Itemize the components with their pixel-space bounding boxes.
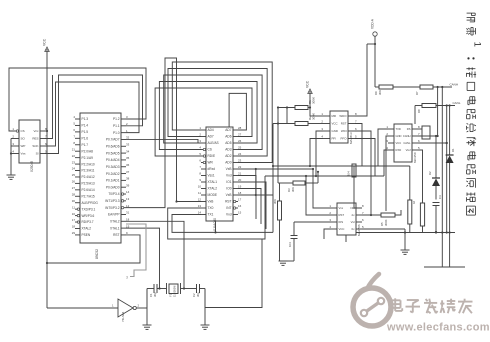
svg-text:R8: R8 (417, 109, 421, 113)
svg-text:RXD: RXD (396, 148, 402, 152)
svg-text:P0.4/AD4: P0.4/AD4 (106, 158, 120, 162)
wire U5 RST right (355, 124, 362, 167)
wire x278 down (278, 108, 280, 184)
ground G4 (279, 261, 295, 265)
svg-text:P1.5: P1.5 (82, 130, 89, 134)
wire R8 left (415, 106, 422, 125)
wire XTAL2 drop (126, 221, 184, 288)
svg-text:P2.2/A10: P2.2/A10 (82, 162, 95, 166)
svg-text:Vss: Vss (21, 152, 27, 156)
svg-text:30K: 30K (378, 90, 382, 95)
svg-text:CANL: CANL (403, 141, 411, 145)
wire D1 down (449, 163, 451, 267)
ground G2 (143, 289, 152, 330)
svg-text:P0.3/AD3: P0.3/AD3 (106, 165, 120, 169)
svg-text:SO: SO (21, 137, 26, 141)
power VCC (center) (306, 80, 313, 116)
bus loop U2 address lines (woven fan) (155, 62, 272, 163)
svg-text:AD4: AD4 (208, 128, 214, 132)
ground G3 (201, 289, 210, 330)
svg-text:14: 14 (126, 190, 130, 194)
wire CANL row (436, 101, 461, 107)
wire x273 vertical (272, 124, 274, 233)
resistor R8 (417, 104, 436, 114)
wire EEPROM SI loop (45, 75, 143, 154)
svg-text:CS: CS (208, 148, 212, 152)
svg-text:P2.0/A8: P2.0/A8 (82, 149, 94, 153)
svg-text:RST: RST (113, 233, 119, 237)
svg-text:17: 17 (238, 198, 242, 202)
svg-text:P0.1/AD1: P0.1/AD1 (106, 179, 120, 183)
svg-text:WDO: WDO (339, 114, 347, 118)
wire MCU-EA to U2 MODE (126, 58, 201, 208)
svg-text:XTAL2: XTAL2 (110, 220, 120, 224)
svg-text:WDI: WDI (341, 129, 347, 133)
wire U7 pin2 (305, 175, 331, 215)
svg-text:CANL: CANL (453, 101, 461, 105)
svg-text:AD7: AD7 (208, 135, 214, 139)
wire EEPROM ground leads (10, 139, 14, 176)
wire U7 pin8 (354, 166, 362, 208)
svg-text:MODE: MODE (208, 193, 218, 197)
svg-text:13: 13 (126, 197, 130, 201)
svg-text:P0.6/AD6: P0.6/AD6 (106, 144, 120, 148)
svg-text:VCC: VCC (396, 141, 402, 145)
svg-text:P2.1/A9: P2.1/A9 (82, 156, 94, 160)
svg-text:INT1/P3.3: INT1/P3.3 (105, 199, 120, 203)
svg-text:GND: GND (332, 129, 338, 133)
wire U7 pin3 to C3 (294, 221, 331, 223)
resistor R7 (415, 85, 433, 95)
svg-text:P1.3: P1.3 (82, 117, 89, 121)
wire vertical x255 (255, 169, 257, 196)
resistor R6 62 (408, 200, 416, 224)
svg-text:17: 17 (72, 218, 76, 222)
wire x287 down (286, 108, 288, 124)
svg-text:PFO: PFO (341, 137, 348, 141)
svg-text:CS: CS (21, 129, 25, 133)
svg-text:30K: 30K (273, 199, 277, 204)
svg-text:300K: 300K (312, 97, 316, 104)
svg-text:P1.0: P1.0 (113, 131, 120, 135)
wire U5 WDI right (355, 131, 372, 216)
svg-text:R7: R7 (415, 91, 419, 95)
svg-text:P1.4: P1.4 (82, 124, 89, 128)
svg-text:RES: RES (32, 137, 38, 141)
capacitor C4 (433, 195, 443, 206)
svg-text:VCC: VCC (339, 227, 345, 231)
svg-text:P2.4/A12: P2.4/A12 (82, 175, 95, 179)
svg-text:VxB: VxB (226, 167, 232, 171)
transceiver U6 82C250 (386, 124, 420, 163)
svg-text:P0.2/AD2: P0.2/AD2 (106, 172, 120, 176)
wire U6 Vref (418, 150, 423, 203)
wire R3 leads (280, 171, 320, 183)
wire U2 row10 rail (238, 194, 273, 196)
svg-text:28: 28 (72, 192, 76, 196)
svg-text:ALE/PROG: ALE/PROG (82, 201, 99, 205)
svg-text:89C52: 89C52 (95, 249, 99, 259)
svg-text:RST: RST (339, 213, 345, 217)
EEPROM U3 X25045 (12, 120, 47, 172)
svg-text:TX0: TX0 (208, 206, 214, 210)
svg-text:RST: RST (341, 122, 347, 126)
svg-text:XTAL2: XTAL2 (82, 227, 92, 231)
svg-text:104: 104 (347, 171, 351, 176)
svg-text:VxB: VxB (208, 200, 214, 204)
svg-text:22: 22 (72, 154, 76, 158)
wire U2 bottom stub (214, 221, 216, 233)
svg-text:MR: MR (332, 114, 337, 118)
wire R5 right (395, 210, 401, 215)
svg-text:CANH: CANH (450, 83, 459, 87)
svg-text:X25045: X25045 (30, 161, 34, 172)
svg-text:74LS04: 74LS04 (121, 311, 125, 322)
svg-text:WR: WR (208, 161, 214, 165)
capacitor C5 104 (347, 164, 357, 177)
svg-text:CANH: CANH (403, 134, 411, 138)
svg-text:1: 1 (472, 42, 483, 47)
svg-text:INT: INT (226, 206, 231, 210)
wire bottom rail y232 (356, 231, 455, 233)
resistor R5 (380, 213, 395, 226)
wire R1 left (277, 106, 311, 108)
wire U2 row8 bend (238, 182, 266, 229)
svg-text:SCK: SCK (32, 144, 38, 148)
svg-text:C4: C4 (438, 195, 442, 199)
wire U7 bottom stub (345, 235, 347, 242)
MCU U1 89C52 (72, 113, 130, 259)
svg-text:30p: 30p (153, 292, 157, 297)
svg-text:P1.1: P1.1 (113, 124, 120, 128)
svg-text:82C250: 82C250 (413, 152, 417, 163)
diode D1 (446, 148, 455, 163)
wire U7 pin4 (324, 229, 331, 239)
svg-text:AD5: AD5 (225, 141, 231, 145)
capacitor C1 30pF (149, 284, 157, 297)
wire crystal rail (147, 287, 205, 289)
wire U5 pin1 (310, 115, 323, 117)
wire D2 to C4 (435, 186, 437, 200)
svg-text:3: 3 (126, 276, 128, 280)
wire XTAL1 drop (126, 228, 160, 288)
ground G5 (362, 229, 410, 254)
wire U2 TX1 route (172, 215, 273, 233)
svg-text:T0/P3.4: T0/P3.4 (108, 192, 119, 196)
svg-text:104: 104 (288, 242, 292, 247)
svg-text:D1: D1 (451, 148, 455, 152)
svg-text:Vxd: Vxd (226, 213, 232, 217)
wire U6 RS (418, 128, 422, 130)
power VCC (left) (43, 38, 50, 308)
svg-text:31: 31 (126, 211, 130, 215)
ground G1 (EEPROM) (7, 175, 16, 179)
svg-text:26: 26 (72, 180, 76, 184)
svg-text:Vxd: Vxd (226, 174, 232, 178)
svg-text:RD/P3.7: RD/P3.7 (82, 220, 94, 224)
svg-text:XTAL2: XTAL2 (208, 187, 218, 191)
svg-text:WP: WP (21, 144, 26, 148)
resistor R2 300K (295, 113, 316, 126)
wire rail y166 (273, 165, 410, 167)
wire inverter output (136, 289, 147, 309)
svg-text:TXD/P3.1: TXD/P3.1 (82, 207, 96, 211)
svg-text:RST: RST (225, 200, 231, 204)
svg-text:TX1: TX1 (208, 213, 214, 217)
title (vertical) 附录1：接口电路总体电路原理图 (466, 13, 482, 215)
svg-text:IO0: IO0 (226, 187, 231, 191)
svg-text:ALE/AS: ALE/AS (208, 141, 219, 145)
svg-text:300K: 300K (312, 113, 316, 120)
wire U5 GND down (315, 131, 323, 177)
svg-text:36: 36 (126, 163, 130, 167)
watchdog U7 MAX706 (329, 203, 364, 236)
svg-text:30K: 30K (291, 187, 295, 192)
wire U6 CANL out (418, 142, 448, 144)
wire RST net (46, 235, 140, 264)
svg-text:39: 39 (126, 183, 130, 187)
resistor R1 300K (295, 97, 316, 110)
capacitor C3 104 (288, 236, 298, 248)
svg-text:Vsl: Vsl (351, 220, 355, 224)
svg-text:RD/E: RD/E (208, 154, 216, 158)
svg-text:VDD-A: VDD-A (371, 18, 375, 29)
svg-text:EA/VPP: EA/VPP (108, 213, 120, 217)
wire U6 TXD (378, 129, 388, 166)
svg-text:300K: 300K (384, 219, 388, 226)
capacitor C2 30pF (192, 284, 200, 297)
svg-text:11: 11 (72, 205, 75, 209)
wire R9-R7 (393, 86, 420, 88)
wire MCU AD7 to U2 (126, 139, 201, 143)
svg-text:21: 21 (72, 147, 76, 151)
inverter U4 74LS04 (112, 299, 140, 322)
wire vert x449.6 (449, 106, 451, 156)
wire U2 row7 bend (238, 176, 256, 220)
wire EEPROM CS loop (9, 68, 146, 131)
svg-text:34: 34 (126, 149, 130, 153)
svg-text:MAX813: MAX813 (349, 132, 353, 144)
svg-text:27: 27 (72, 186, 76, 190)
svg-text:VxB: VxB (226, 193, 232, 197)
wire R4 down (279, 220, 281, 261)
svg-text:Vxx: Vxx (339, 206, 344, 210)
wire U6 GND down (386, 136, 388, 211)
resistor R10 (420, 203, 424, 233)
wire U2 innermost loop (229, 93, 246, 130)
svg-text:PSEN: PSEN (82, 233, 91, 237)
svg-text:INT0/P3.2: INT0/P3.2 (105, 206, 120, 210)
wire vert x437.6 (437, 87, 439, 136)
wire C4 down (435, 206, 437, 234)
svg-text:25: 25 (72, 173, 76, 177)
svg-text:38: 38 (126, 177, 130, 181)
svg-text:TXD: TXD (396, 127, 401, 131)
wire VDD-A branch left (367, 43, 375, 45)
diode D2 (428, 171, 440, 186)
svg-text:GND: GND (396, 134, 402, 138)
wire xtal to right (205, 239, 262, 308)
svg-text:P0.5/AD5: P0.5/AD5 (106, 151, 120, 155)
svg-text:Vss1: Vss1 (208, 174, 215, 178)
wire rail y176 (265, 175, 384, 177)
svg-text:16: 16 (238, 204, 242, 208)
svg-text:10: 10 (198, 185, 202, 189)
wire inverter input (47, 307, 118, 309)
svg-text:15: 15 (238, 211, 242, 215)
svg-text:AD7: AD7 (225, 128, 231, 132)
wire R2 left (273, 122, 295, 124)
wire U7 right pin2 resistor (362, 214, 381, 216)
svg-text:P1.6: P1.6 (82, 137, 89, 141)
svg-text:11: 11 (198, 191, 201, 195)
svg-text:30: 30 (72, 199, 76, 203)
wire VDD-A down to R9 (375, 44, 379, 87)
svg-text:Vref: Vref (406, 148, 411, 152)
svg-text:P1.7: P1.7 (82, 143, 89, 147)
wire EEPROM SCK loop (45, 82, 139, 146)
svg-text:PFI: PFI (332, 137, 337, 141)
svg-text:37: 37 (126, 170, 130, 174)
supervisor U5 MAX813L (321, 111, 357, 144)
wire vert x442.3 (441, 87, 443, 267)
svg-text:18: 18 (72, 225, 76, 229)
wire vert x446.7 (446, 106, 448, 233)
resistor R4 (vertical) (273, 199, 282, 220)
svg-text:P1.2: P1.2 (113, 117, 120, 121)
svg-text:AD0: AD0 (225, 161, 231, 165)
svg-text:Vcc: Vcc (33, 129, 39, 133)
wire U5 PFO right (355, 139, 375, 177)
wire R6 top (409, 166, 411, 200)
wire R4 top (279, 183, 281, 201)
wire U5 PFI down (309, 139, 323, 168)
svg-text:23: 23 (72, 160, 76, 164)
svg-text:AD3: AD3 (225, 148, 231, 152)
svg-text:35: 35 (126, 156, 130, 160)
svg-text:MAX706: MAX706 (357, 224, 361, 236)
svg-text:30p: 30p (196, 292, 200, 297)
svg-text:P2.7/A15: P2.7/A15 (82, 194, 95, 198)
svg-text:XTAL1: XTAL1 (110, 226, 120, 230)
svg-text:RS: RS (407, 127, 411, 131)
svg-text:P2.5/A13: P2.5/A13 (82, 182, 95, 186)
crystal Y1 (167, 283, 181, 297)
svg-text:SI: SI (36, 152, 39, 156)
svg-text:16: 16 (72, 212, 76, 216)
wire EA grey (126, 224, 146, 280)
wire U5 WDO right (355, 44, 367, 116)
wire R2 right (308, 123, 323, 125)
svg-text:XTAL1: XTAL1 (208, 180, 218, 184)
svg-text:VCC: VCC (332, 122, 338, 126)
svg-text:AD6: AD6 (225, 135, 231, 139)
svg-text:WR/P3.6: WR/P3.6 (82, 214, 95, 218)
wire CANH row (433, 83, 458, 89)
svg-text:Y1: Y1 (169, 293, 173, 297)
svg-text:24: 24 (72, 167, 76, 171)
svg-text:AD2: AD2 (225, 154, 231, 158)
wire rail y267 (424, 266, 465, 268)
svg-text:IO1: IO1 (226, 180, 231, 184)
svg-text:dRxd: dRxd (208, 167, 216, 171)
wire EEPROM RES (45, 75, 53, 139)
svg-text:P2.3/A11: P2.3/A11 (82, 169, 95, 173)
wire U6 RXD (384, 150, 388, 176)
wire EEPROM Vcc to VCC rail (45, 130, 48, 132)
resistor R9 (374, 85, 393, 95)
wire U6 CANH out (418, 135, 439, 137)
wire U7 pin1 (312, 168, 331, 208)
svg-text:11.0592M: 11.0592M (173, 286, 177, 297)
svg-text:www.elecfans.com: www.elecfans.com (386, 322, 490, 334)
resistor R3 30K (287, 181, 305, 192)
svg-text:P0.0/AD0: P0.0/AD0 (106, 185, 120, 189)
wire U2 TX0 route (168, 176, 265, 239)
svg-text:VCC: VCC (306, 80, 310, 88)
wire U2 row9 bend (238, 189, 261, 225)
svg-text:P0.7/AD7: P0.7/AD7 (106, 138, 120, 142)
svg-text:VCC: VCC (43, 38, 47, 46)
svg-text:P2.6/A14: P2.6/A14 (82, 188, 95, 192)
svg-text:D2: D2 (428, 171, 432, 175)
wire C3 leads (293, 222, 295, 261)
svg-text:29: 29 (72, 231, 76, 235)
svg-text:SJA1000: SJA1000 (213, 218, 217, 231)
wire U2 row6 rail (238, 168, 313, 170)
component JP (small box) (422, 126, 430, 139)
svg-text:IDS: IDS (339, 220, 344, 224)
wire R6 bottom (409, 224, 411, 233)
wire vert x436 top (435, 135, 437, 178)
CAN controller U2 SJA1000 (198, 126, 242, 231)
svg-text:33: 33 (126, 142, 130, 146)
watermark elecfans logo (353, 274, 490, 334)
svg-text:62: 62 (412, 200, 416, 204)
terminal VDD-A (371, 18, 378, 45)
